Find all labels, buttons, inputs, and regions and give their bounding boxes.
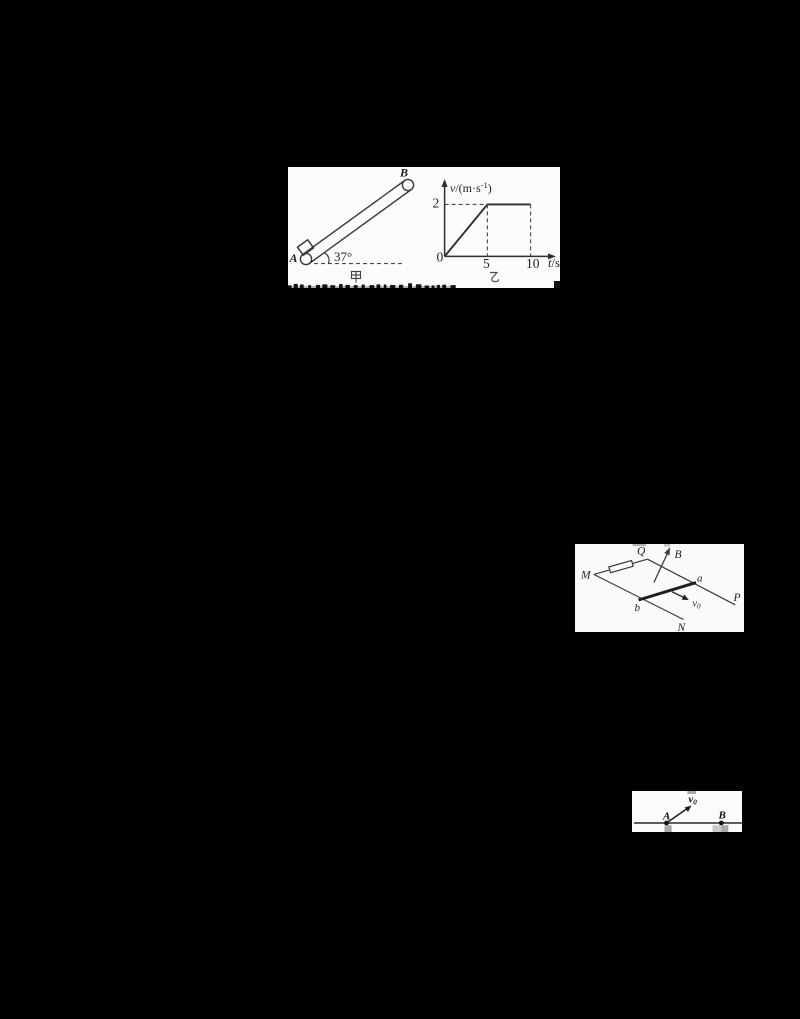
v-t graph: y-axis <box>444 183 446 256</box>
figure panel 1: conveyor belt + v-t graph <box>288 167 560 288</box>
gray artifact top edge right <box>664 544 671 547</box>
v0 arrow <box>672 592 686 599</box>
svg-text:B: B <box>675 549 682 561</box>
v-t graph: x-axis <box>445 255 552 257</box>
ground dashed line <box>314 263 404 265</box>
resistor on MQ rail <box>609 560 633 572</box>
conveyor: lower pulley A <box>300 253 311 264</box>
svg-text:5: 5 <box>483 256 490 271</box>
svg-text:M: M <box>580 570 592 582</box>
svg-text:B: B <box>399 167 408 180</box>
gray artifact top edge left <box>633 544 647 546</box>
angle arc 37deg <box>324 253 329 264</box>
figure panel 2: sloped rails MNPQ with rod ab <box>575 544 744 632</box>
ground line <box>634 822 742 824</box>
svg-text:2: 2 <box>433 196 440 211</box>
gray artifact below B left <box>713 825 722 832</box>
figure panel 3: points A and B with v0 arrow <box>632 791 742 832</box>
caption yi (Chinese) drawn as strokes <box>490 273 499 282</box>
rail Q to P <box>648 559 736 605</box>
gray artifact below A <box>665 825 672 832</box>
svg-text:a: a <box>697 573 703 585</box>
svg-text:v/(m·s-1): v/(m·s-1) <box>450 180 492 195</box>
svg-text:A: A <box>289 251 298 265</box>
dashed guide vertical at t=10 <box>530 204 532 256</box>
svg-text:v0: v0 <box>689 795 698 807</box>
belt bottom line <box>309 190 411 264</box>
svg-text:N: N <box>677 622 687 632</box>
svg-text:0: 0 <box>437 250 444 265</box>
svg-text:37°: 37° <box>334 249 352 264</box>
svg-text:B: B <box>718 810 726 822</box>
clipped bold text row fragments at bottom <box>288 281 560 291</box>
rail M to N <box>594 574 684 619</box>
rail M to Q <box>594 559 648 574</box>
svg-text:Q: Q <box>637 546 646 558</box>
dashed guide horizontal at v=2 <box>445 203 488 205</box>
svg-text:v0: v0 <box>693 599 701 611</box>
svg-text:10: 10 <box>526 256 540 271</box>
conveyor: upper pulley B <box>402 179 413 190</box>
clipped bold text row gray underlay <box>288 286 455 288</box>
caption jia (Chinese) drawn as strokes <box>352 272 361 283</box>
gray artifact below B right <box>722 825 729 832</box>
B field arrow <box>654 551 669 583</box>
point A dot <box>664 821 669 826</box>
svg-text:b: b <box>635 602 641 614</box>
rod ab <box>639 583 697 600</box>
v0 launch arrow <box>667 808 689 824</box>
svg-text:t/s: t/s <box>548 256 560 270</box>
svg-text:A: A <box>662 811 670 823</box>
graph curve <box>445 204 531 256</box>
gray artifact top <box>687 791 696 794</box>
svg-text:P: P <box>733 592 741 604</box>
belt top line <box>303 181 405 255</box>
dashed guide vertical at t=5 <box>486 204 488 256</box>
block on belt <box>297 240 313 255</box>
point B dot <box>719 821 724 826</box>
